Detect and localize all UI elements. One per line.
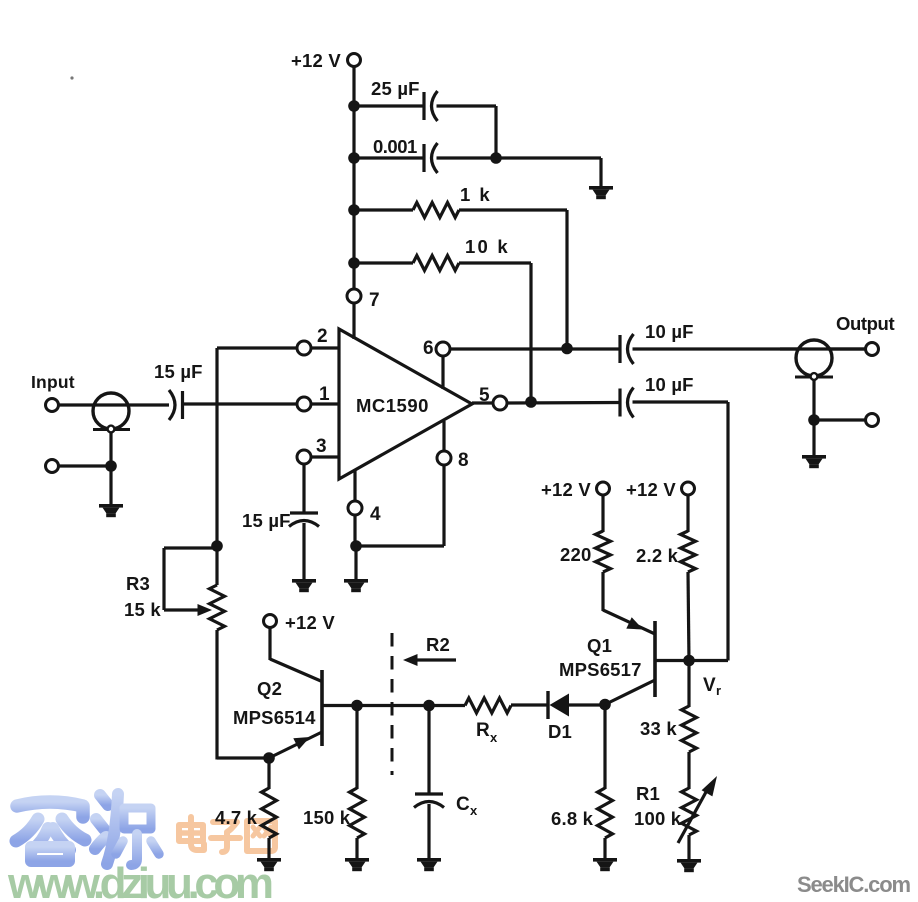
wire pin6 lead to triangle edge (441, 356, 444, 389)
wire 2.2k bottom lead (688, 572, 689, 662)
svg-text:10 µF: 10 µF (645, 321, 694, 342)
svg-text:15 µF: 15 µF (154, 361, 203, 382)
wire 0.001 left lead (354, 156, 424, 159)
wire R1 to ground (687, 835, 690, 860)
svg-text:MC1590: MC1590 (356, 395, 429, 416)
wire Q1 emitter diagonal (603, 610, 655, 634)
wire node to ground (354, 546, 357, 580)
ground (pin 4) (344, 579, 368, 592)
capacitor 10 uF (upper) (620, 334, 634, 364)
power +12V terminal (top) (348, 54, 361, 67)
wire left vertical pin2 to R3 (215, 348, 218, 585)
diode D1 (546, 691, 549, 719)
wire Q2 base run (323, 704, 465, 707)
output jack tip contact (811, 373, 818, 380)
wire 10uF lower to Vr drop (633, 400, 729, 403)
node input shield junction (105, 460, 117, 472)
node pin6/1k junction (561, 343, 573, 355)
wire R3 wiper loop side (162, 548, 165, 610)
Q1 emitter arrowhead (626, 617, 643, 629)
ground (15uF) (292, 579, 316, 592)
wire pin1 to triangle (311, 402, 339, 405)
node Q2 emitter junction (263, 752, 275, 764)
ground (4.7k) (257, 858, 281, 871)
wire pin5 run to 10uF (507, 401, 620, 405)
svg-text:150 k: 150 k (303, 807, 351, 828)
node junction 25uF tap (348, 100, 360, 112)
wire 25uF right lead (437, 104, 497, 107)
pin 2 (297, 341, 311, 355)
wire 33k top lead (687, 662, 690, 707)
svg-text:1: 1 (319, 384, 330, 405)
svg-text:25 µF: 25 µF (371, 78, 420, 99)
node junction caps common (490, 152, 502, 164)
R1 variable arrow line (678, 792, 706, 843)
svg-text:R: R (476, 720, 490, 741)
pin 6 (436, 342, 450, 356)
wire across to Q2 emitter node (217, 756, 269, 759)
svg-text:4.7 k: 4.7 k (215, 807, 258, 828)
op-amp U1 MC1590 triangle (339, 329, 472, 479)
wire Q2 collector drop (268, 628, 271, 661)
svg-text:8: 8 (458, 450, 469, 471)
wire pin4 down to node (353, 515, 356, 546)
wire 6.8k to ground (603, 838, 606, 859)
wire 2.2k top lead (686, 495, 689, 532)
resistor 10 k (413, 256, 459, 271)
svg-text:+12 V: +12 V (541, 479, 591, 500)
R1 variable arrowhead (702, 776, 717, 796)
svg-text:D1: D1 (548, 721, 572, 742)
node base/150k junction (351, 700, 363, 712)
wire across output jack (780, 347, 865, 350)
svg-text:7: 7 (369, 290, 380, 311)
node base/Cx junction (423, 700, 435, 712)
wire pin8 down (442, 465, 445, 546)
wire output shield branch (814, 418, 865, 421)
input jack shield bar (93, 428, 130, 431)
output jack shield bar (795, 376, 833, 379)
transistor Q1 bar (653, 621, 657, 697)
wire R3 wiper arrow line (164, 608, 203, 611)
svg-text:2.2 k: 2.2 k (636, 545, 679, 566)
svg-text:100 k: 100 k (634, 808, 682, 829)
svg-text:220: 220 (560, 544, 591, 565)
capacitor 15 uF (input coupling) (169, 390, 183, 420)
wire R3 bottom down (215, 630, 218, 760)
ground (6.8k) (593, 858, 617, 871)
node junction 10k tap (348, 257, 360, 269)
node R3 top junction (211, 540, 223, 552)
svg-text:+12 V: +12 V (626, 479, 676, 500)
svg-text:3: 3 (316, 436, 327, 457)
wire 6.8k top lead (603, 705, 606, 789)
output jack shield circle (796, 340, 832, 376)
svg-text:V: V (703, 675, 716, 696)
svg-text:Q1: Q1 (587, 635, 612, 656)
wire 150k top lead (355, 706, 358, 790)
wire Q2 collector diagonal (270, 659, 322, 682)
resistor 6.8 k (598, 788, 613, 838)
wire Vr up to 10uF return (726, 402, 729, 661)
wire pin3 to triangle (311, 455, 339, 458)
wire 10k left lead (354, 261, 413, 264)
pin 1 (297, 397, 311, 411)
resistor Rx (465, 698, 511, 713)
R2 arrowhead (403, 654, 418, 666)
svg-text:R3: R3 (126, 573, 150, 594)
wire 1k left lead (354, 208, 413, 211)
svg-text:33 k: 33 k (640, 718, 677, 739)
transistor Q2 bar (320, 670, 324, 746)
wire 10uF upper to output jack (633, 347, 866, 350)
wire Cx top lead (427, 706, 430, 795)
wire 220 bottom lead (601, 572, 604, 611)
power +12V terminal (220) (597, 482, 610, 495)
svg-text:Q2: Q2 (257, 678, 282, 699)
wire 33k to R1 (687, 752, 690, 789)
ground (output) (802, 455, 826, 468)
svg-text:Input: Input (31, 372, 75, 392)
watermark chinese chars dian-zi-wang (peach) (179, 817, 275, 852)
svg-text:0.001: 0.001 (373, 136, 417, 157)
wire pin4 lead to triangle edge (353, 470, 356, 501)
wire 15uF cap to ground (302, 523, 305, 580)
pin 5 (493, 396, 507, 410)
svg-text:x: x (470, 803, 478, 818)
resistor 2.2 k (681, 531, 696, 572)
wire pin8 lead to triangle edge (442, 421, 445, 451)
svg-text:Output: Output (836, 313, 894, 334)
wire pin3 down to 15uF cap (302, 464, 305, 513)
node pin4/pin8 junction (350, 540, 362, 552)
wire Q2 emitter diagonal (269, 732, 322, 758)
svg-text:+12 V: +12 V (291, 50, 341, 71)
node Vr junction (683, 655, 695, 667)
resistor 33 k (682, 706, 697, 752)
resistor 1 k (413, 203, 459, 218)
ground (R1) (677, 859, 701, 872)
capacitor 10 uF (lower) (620, 388, 634, 418)
wire pin7 lead into triangle (352, 303, 355, 339)
power +12V terminal (2.2k) (682, 482, 695, 495)
wire output jack down (812, 379, 815, 420)
node pin5/10k junction (525, 396, 537, 408)
wire Q1 base diagonal (605, 680, 655, 705)
wire pin6 run to 10uF (450, 347, 620, 350)
pin 4 (348, 501, 362, 515)
wire pin1 to input cap (183, 402, 297, 405)
ground (150k) (345, 858, 369, 871)
wire 4.7k top lead (267, 758, 270, 789)
input jack shield circle (93, 393, 129, 429)
wire input to coupling cap (59, 403, 170, 406)
wire jack down to shield node (109, 432, 112, 466)
wire 10k right lead (459, 261, 531, 264)
wire shield to ground (109, 466, 112, 505)
svg-text:SeekIC.com: SeekIC.com (797, 872, 911, 897)
ground (Cx) (417, 858, 441, 871)
node Q1 base junction (599, 699, 611, 711)
wire 1k feedback drop to pin6 line (565, 210, 568, 349)
wire main vertical bus from +12V to pin 7 (352, 67, 355, 290)
R3 wiper arrowhead (198, 604, 213, 616)
input shield terminal (46, 460, 59, 473)
svg-text:+12 V: +12 V (285, 612, 335, 633)
svg-text:x: x (490, 730, 498, 745)
svg-text:4: 4 (370, 504, 381, 525)
wire Cx to ground (427, 804, 430, 859)
svg-text:R2: R2 (426, 634, 450, 655)
svg-text:15 k: 15 k (124, 599, 161, 620)
svg-text:2: 2 (317, 326, 328, 347)
capacitor 0.001 (424, 143, 438, 173)
wire 25uF drop to 0.001 node (494, 106, 497, 160)
pin 3 (297, 450, 311, 464)
svg-text:1 k: 1 k (460, 184, 492, 205)
pin 8 (437, 451, 451, 465)
resistor 220 (596, 531, 611, 572)
wire pin2 to left vertical (217, 346, 297, 349)
watermark chinese chars rong-yuan (blue) (16, 786, 159, 865)
ground (top bypass) (589, 186, 613, 199)
wire shield branch (59, 464, 112, 467)
wire 25uF left lead (354, 104, 424, 107)
capacitor Cx (414, 794, 444, 808)
input terminal (46, 399, 59, 412)
resistor 150 k (350, 788, 365, 838)
ground (input) (99, 504, 123, 517)
node junction 1k tap (348, 204, 360, 216)
resistor R1 100 k (variable) (682, 788, 697, 835)
Q2 emitter arrowhead (293, 737, 310, 750)
wire D1 to Q1 base node (569, 703, 607, 706)
svg-text:MPS6517: MPS6517 (559, 659, 642, 680)
R2 dashed divider (391, 633, 394, 775)
wire ground drop (top right) (599, 158, 602, 187)
input jack tip contact (108, 426, 115, 433)
wire 220 top lead (601, 495, 604, 532)
wire output shield to ground (812, 420, 815, 456)
wire 1k right lead (459, 208, 567, 211)
svg-text:MPS6514: MPS6514 (233, 707, 316, 728)
scan speck (70, 76, 73, 79)
R2 arrow line (413, 658, 456, 661)
svg-text:R1: R1 (636, 783, 660, 804)
svg-text:10 k: 10 k (465, 236, 510, 257)
svg-text:15 µF: 15 µF (242, 510, 291, 531)
power +12V terminal (Q2) (264, 615, 277, 628)
wire Q1 collector run (656, 659, 728, 662)
pin 7 (347, 289, 361, 303)
wire pin2 to triangle (311, 346, 339, 349)
output terminal (866, 343, 879, 356)
wire 150k to ground (355, 838, 358, 859)
svg-text:www.dziuu.com: www.dziuu.com (7, 859, 274, 902)
wire R3 wiper loop top (164, 546, 217, 549)
wire pin8 across to pin4 node (357, 544, 444, 547)
output shield terminal (866, 414, 879, 427)
wire 10k feedback drop to pin5 line (529, 263, 532, 402)
svg-text:C: C (456, 794, 470, 815)
node junction 0.001 tap (348, 152, 360, 164)
resistor 4.7 k (262, 788, 277, 838)
resistor R3 15 k (pot) (210, 585, 225, 630)
wire pin5 apex lead (472, 401, 493, 404)
wire 0.001 right lead to ground branch (437, 156, 602, 159)
node output shield junction (808, 414, 820, 426)
svg-text:6.8 k: 6.8 k (551, 808, 594, 829)
wire Rx to D1 (511, 703, 548, 706)
svg-text:6: 6 (423, 338, 434, 359)
svg-text:r: r (716, 683, 721, 698)
svg-text:10 µF: 10 µF (645, 374, 694, 395)
wire 4.7k to ground (267, 838, 270, 859)
capacitor 25 uF (424, 91, 438, 121)
capacitor 15 uF (pin 3) (289, 513, 319, 527)
